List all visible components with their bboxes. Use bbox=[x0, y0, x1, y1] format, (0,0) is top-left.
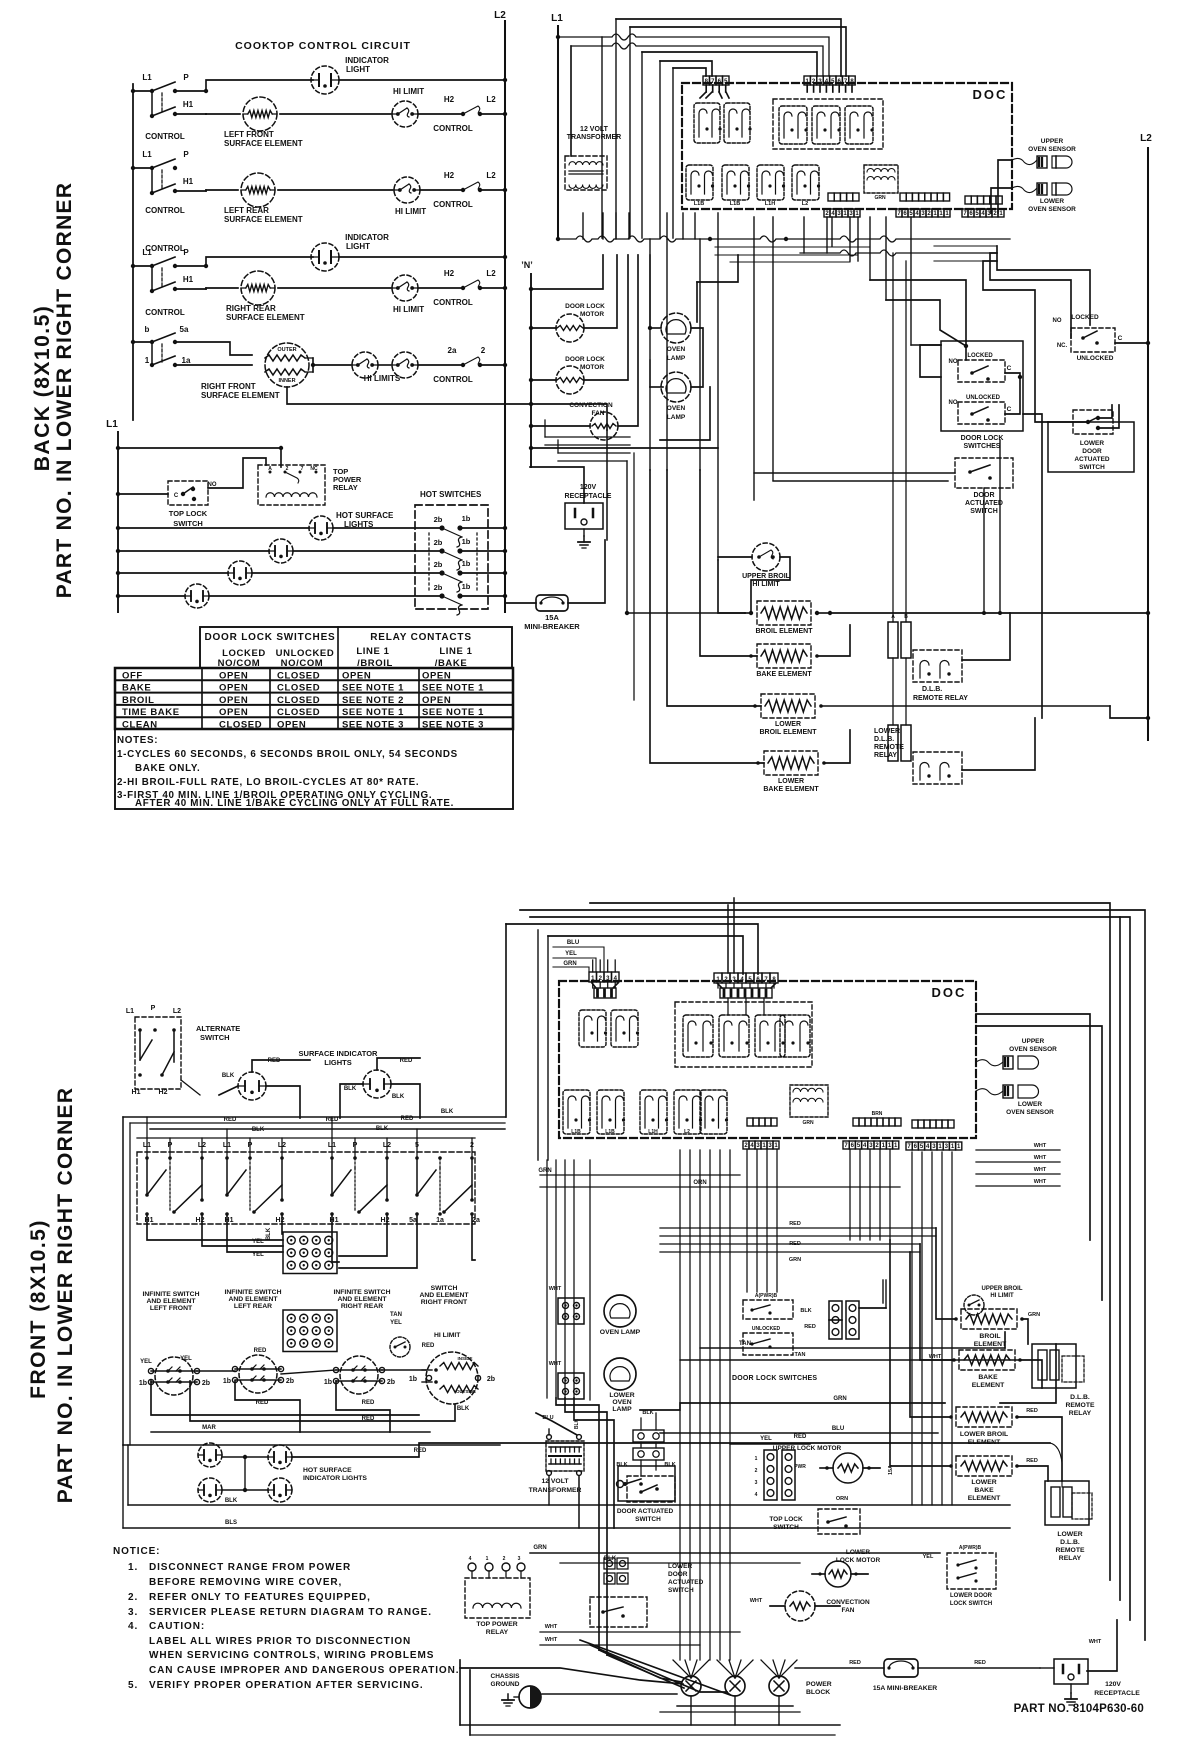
svg-text:HOT SWITCHES: HOT SWITCHES bbox=[420, 490, 482, 499]
wire indicator row1 to L2 bbox=[339, 79, 505, 81]
svg-text:RED: RED bbox=[1026, 1458, 1038, 1464]
svg-text:RED: RED bbox=[794, 1434, 807, 1440]
svg-text:1b: 1b bbox=[139, 1380, 147, 1387]
svg-text:WHT: WHT bbox=[750, 1598, 763, 1604]
wire transformer feeds bbox=[536, 1413, 577, 1435]
svg-text:CAUTION:: CAUTION: bbox=[149, 1621, 205, 1632]
svg-text:ORN: ORN bbox=[693, 1180, 706, 1186]
relay cluster dashed box DOC bbox=[773, 99, 883, 149]
wire door switch connections bbox=[1005, 373, 1020, 377]
svg-text:1: 1 bbox=[145, 356, 150, 365]
svg-text:ALTERNATE: ALTERNATE bbox=[196, 1024, 240, 1033]
svg-text:BLK: BLK bbox=[344, 1086, 357, 1092]
relay K5 in DOC bbox=[845, 106, 873, 144]
terminal block upper bbox=[283, 1232, 337, 1274]
svg-text:BAKE ONLY.: BAKE ONLY. bbox=[135, 763, 200, 774]
connector 8-pin top bbox=[804, 76, 810, 85]
svg-text:RIGHT REAR: RIGHT REAR bbox=[226, 304, 276, 313]
wire right staircase 3 bbox=[983, 261, 1048, 422]
svg-text:3.: 3. bbox=[128, 1607, 138, 1618]
svg-text:BLK: BLK bbox=[252, 1127, 265, 1133]
svg-text:1a: 1a bbox=[182, 356, 191, 365]
svg-text:COOKTOP CONTROL CIRCUIT: COOKTOP CONTROL CIRCUIT bbox=[235, 40, 411, 52]
svg-text:VERIFY PROPER OPERATION AFTER: VERIFY PROPER OPERATION AFTER SERVICING. bbox=[149, 1680, 424, 1691]
svg-text:OVEN: OVEN bbox=[667, 346, 686, 353]
svg-text:POWER: POWER bbox=[806, 1681, 832, 1688]
svg-text:BLK: BLK bbox=[266, 1227, 272, 1240]
svg-text:P: P bbox=[183, 73, 189, 82]
svg-text:RED: RED bbox=[268, 1058, 281, 1064]
lower bake element back bbox=[764, 751, 818, 775]
svg-text:SWITCH: SWITCH bbox=[668, 1587, 694, 1594]
svg-text:BLU: BLU bbox=[567, 940, 579, 946]
svg-text:WHT: WHT bbox=[1034, 1155, 1047, 1161]
svg-text:REMOTE: REMOTE bbox=[1055, 1547, 1085, 1554]
wire lower broil to right bbox=[821, 705, 1110, 707]
wire main bus back bbox=[558, 236, 1010, 242]
wire verticals DOC to lower bbox=[717, 213, 719, 560]
wire bundle below strip a bbox=[746, 1150, 748, 1292]
svg-text:1b: 1b bbox=[462, 559, 471, 568]
svg-text:15A: 15A bbox=[545, 613, 559, 622]
surface element left rear bbox=[239, 1355, 277, 1393]
svg-text:UPPER: UPPER bbox=[1022, 1038, 1045, 1045]
surface element right rear bbox=[340, 1356, 378, 1394]
svg-text:GRN: GRN bbox=[874, 195, 886, 201]
svg-text:H2: H2 bbox=[159, 1089, 168, 1096]
svg-text:ELEMENT: ELEMENT bbox=[972, 1382, 1005, 1389]
wire L1 to connector nest bbox=[556, 35, 560, 39]
svg-text:NOTES:: NOTES: bbox=[117, 735, 158, 746]
svg-text:SEE NOTE 1: SEE NOTE 1 bbox=[342, 707, 404, 718]
svg-text:RIGHT REAR: RIGHT REAR bbox=[341, 1303, 383, 1310]
transformer small in DOC bbox=[864, 165, 898, 193]
wire bottom rails bbox=[460, 1724, 840, 1726]
svg-text:4: 4 bbox=[469, 1556, 472, 1562]
wire hi limit row1 to control L2 bbox=[418, 113, 463, 115]
svg-text:RED: RED bbox=[414, 1448, 427, 1454]
svg-text:OVEN SENSOR: OVEN SENSOR bbox=[1028, 146, 1076, 153]
svg-text:INNER: INNER bbox=[278, 378, 295, 384]
svg-text:BROIL ELEMENT: BROIL ELEMENT bbox=[755, 628, 813, 635]
wire breaker to oven section bbox=[568, 540, 605, 603]
wire right big bundle bbox=[976, 1014, 1090, 1240]
svg-text:RELAY: RELAY bbox=[1059, 1555, 1082, 1562]
svg-text:L2: L2 bbox=[802, 201, 808, 207]
svg-text:H2: H2 bbox=[444, 269, 455, 278]
broil element back bbox=[757, 601, 811, 625]
svg-text:YEL: YEL bbox=[180, 1356, 192, 1362]
svg-text:L2: L2 bbox=[486, 95, 496, 104]
svg-text:LAMP: LAMP bbox=[667, 355, 686, 362]
svg-text:WHEN SERVICING CONTROLS, WIRIN: WHEN SERVICING CONTROLS, WIRING PROBLEMS bbox=[149, 1650, 434, 1661]
svg-text:RIGHT FRONT: RIGHT FRONT bbox=[421, 1299, 468, 1306]
connector strip DOC bottom mid bbox=[900, 193, 906, 201]
svg-text:RED: RED bbox=[422, 1343, 435, 1349]
svg-text:15A MINI-BREAKER: 15A MINI-BREAKER bbox=[873, 1685, 937, 1692]
15A mini-breaker top bbox=[536, 595, 568, 611]
relay cluster front DOC bbox=[675, 1002, 812, 1067]
DOC box back bbox=[682, 83, 1012, 209]
svg-text:L2: L2 bbox=[1140, 133, 1152, 144]
svg-text:B: B bbox=[904, 614, 908, 620]
wire stubs assembly top bbox=[146, 1138, 148, 1156]
svg-text:HI LIMIT: HI LIMIT bbox=[434, 1332, 461, 1339]
wire L1 mid bus bbox=[117, 432, 119, 612]
svg-text:5a: 5a bbox=[409, 1217, 417, 1224]
svg-text:L2: L2 bbox=[494, 10, 506, 21]
svg-text:DOOR ACTUATED: DOOR ACTUATED bbox=[617, 1508, 674, 1515]
hi limit row1 bbox=[392, 101, 418, 127]
svg-text:OVEN SENSOR: OVEN SENSOR bbox=[1028, 206, 1076, 213]
svg-text:LINE 1: LINE 1 bbox=[356, 646, 389, 657]
connector strip front doc right bbox=[912, 1120, 918, 1128]
svg-text:SWITCH: SWITCH bbox=[773, 1524, 799, 1531]
svg-text:INFINITE SWITCH: INFINITE SWITCH bbox=[224, 1289, 281, 1296]
svg-text:L1B: L1B bbox=[730, 201, 740, 207]
svg-text:H2: H2 bbox=[444, 171, 455, 180]
svg-text:1b: 1b bbox=[409, 1376, 417, 1383]
relay K2 in DOC bbox=[724, 103, 750, 143]
svg-text:BLK: BLK bbox=[664, 1462, 675, 1468]
svg-text:AFTER 40 MIN. LINE 1/BAKE CYCL: AFTER 40 MIN. LINE 1/BAKE CYCLING ONLY A… bbox=[135, 798, 454, 809]
svg-text:A(PWR)B: A(PWR)B bbox=[959, 1545, 982, 1551]
wire center bundle verticals front bbox=[679, 1150, 681, 1660]
svg-text:RELAY CONTACTS: RELAY CONTACTS bbox=[370, 632, 472, 643]
relay row2 front DOC 1 bbox=[563, 1090, 590, 1134]
wire row2 H1 to element bbox=[175, 190, 206, 192]
svg-text:CONTROL: CONTROL bbox=[145, 132, 185, 141]
svg-text:2a: 2a bbox=[472, 1217, 480, 1224]
DOC box front bbox=[559, 981, 976, 1138]
svg-text:A: A bbox=[891, 614, 895, 620]
svg-text:LABEL ALL WIRES PRIOR TO DISCO: LABEL ALL WIRES PRIOR TO DISCONNECTION bbox=[149, 1636, 411, 1647]
svg-text:BLK: BLK bbox=[457, 1406, 470, 1412]
svg-text:1: 1 bbox=[755, 1456, 758, 1462]
wire verticals from DOC down to bus bbox=[582, 213, 584, 239]
connector 4-pin top bbox=[703, 76, 710, 85]
svg-text:H2: H2 bbox=[276, 1217, 285, 1224]
oven sensor lower bbox=[1037, 183, 1047, 195]
lower broil element front bbox=[956, 1407, 1012, 1427]
svg-text:OPEN: OPEN bbox=[422, 670, 451, 681]
svg-text:4.: 4. bbox=[128, 1621, 138, 1632]
svg-text:1: 1 bbox=[486, 1556, 489, 1562]
svg-text:1b: 1b bbox=[462, 537, 471, 546]
svg-text:DOOR LOCK SWITCHES: DOOR LOCK SWITCHES bbox=[732, 1375, 817, 1382]
wire right staircase 1 bbox=[997, 246, 1090, 325]
svg-text:RED: RED bbox=[256, 1400, 269, 1406]
wire N to top bbox=[531, 255, 603, 289]
svg-text:DOC: DOC bbox=[932, 985, 967, 1000]
surface element left front bbox=[155, 1357, 193, 1395]
connector strip front doc mid bbox=[853, 1118, 859, 1126]
svg-text:OVEN SENSOR: OVEN SENSOR bbox=[1006, 1109, 1054, 1116]
svg-text:BLK: BLK bbox=[642, 1410, 653, 1416]
svg-text:SWITCH: SWITCH bbox=[200, 1033, 230, 1042]
broil element front bbox=[961, 1309, 1017, 1329]
svg-text:TOP POWER: TOP POWER bbox=[476, 1621, 517, 1628]
wire nest line 5 bbox=[642, 52, 817, 76]
svg-text:REMOTE RELAY: REMOTE RELAY bbox=[913, 695, 968, 702]
hot surface light 1 bbox=[309, 516, 333, 540]
element row1 bbox=[243, 97, 277, 131]
svg-text:NO: NO bbox=[949, 400, 958, 406]
svg-text:CLOSED: CLOSED bbox=[277, 695, 320, 706]
svg-text:L1B: L1B bbox=[694, 201, 704, 207]
wire bus back third bbox=[934, 246, 997, 261]
upper broil hi limit bbox=[752, 543, 780, 571]
svg-text:RELAY: RELAY bbox=[874, 752, 897, 759]
wire staircase to door switches bbox=[870, 280, 966, 346]
svg-text:2: 2 bbox=[481, 346, 486, 355]
lower bake element front bbox=[956, 1456, 1012, 1476]
svg-text:WHT: WHT bbox=[549, 1286, 562, 1292]
wire elements verticals from bus bbox=[699, 239, 701, 470]
connector funnel 8pin front bbox=[717, 983, 722, 988]
svg-text:SEE NOTE 1: SEE NOTE 1 bbox=[422, 707, 484, 718]
wire rails mid left back bbox=[545, 436, 630, 438]
wire verticals right of N bbox=[544, 420, 546, 437]
wire hot light 3 bbox=[118, 572, 228, 574]
svg-text:L2: L2 bbox=[173, 1008, 181, 1015]
svg-text:LOWER: LOWER bbox=[1018, 1101, 1042, 1108]
svg-text:LAMP: LAMP bbox=[667, 414, 686, 421]
120V receptacle front bbox=[1054, 1659, 1088, 1684]
svg-text:2a: 2a bbox=[448, 346, 457, 355]
svg-text:RED: RED bbox=[400, 1058, 413, 1064]
svg-text:LINE 1: LINE 1 bbox=[439, 646, 472, 657]
door lock switches back box bbox=[941, 341, 1023, 431]
svg-text:LOWER: LOWER bbox=[1040, 198, 1064, 205]
svg-text:WHT: WHT bbox=[545, 1637, 558, 1643]
svg-text:YEL: YEL bbox=[565, 951, 577, 957]
hot switches box bbox=[415, 505, 488, 609]
svg-text:WHT: WHT bbox=[1034, 1167, 1047, 1173]
table notes bbox=[115, 729, 513, 809]
wire hi limits to control row4 bbox=[418, 364, 463, 366]
svg-text:BLK: BLK bbox=[441, 1109, 454, 1115]
svg-text:2b: 2b bbox=[487, 1376, 495, 1383]
hi limit row3 bbox=[392, 275, 418, 301]
svg-text:YEL: YEL bbox=[923, 1554, 934, 1560]
svg-text:SEE NOTE 1: SEE NOTE 1 bbox=[422, 683, 484, 694]
svg-text:b: b bbox=[145, 325, 150, 334]
svg-text:2b: 2b bbox=[434, 583, 443, 592]
svg-text:BLK: BLK bbox=[800, 1308, 811, 1314]
svg-text:RED: RED bbox=[362, 1400, 375, 1406]
svg-text:C: C bbox=[1007, 365, 1012, 372]
wire rails RED GRN front bbox=[660, 1227, 936, 1229]
wire nest line 4 bbox=[571, 43, 823, 76]
svg-text:PART NO. 8104P630-60: PART NO. 8104P630-60 bbox=[1014, 1703, 1144, 1715]
svg-text:CONTROL: CONTROL bbox=[145, 206, 185, 215]
top lock switch front bbox=[818, 1509, 860, 1534]
15A mini-breaker front bbox=[884, 1659, 918, 1677]
svg-text:LEFT REAR: LEFT REAR bbox=[224, 206, 269, 215]
svg-text:HI LIMIT: HI LIMIT bbox=[393, 87, 424, 96]
wire vertical 634 bbox=[633, 453, 635, 700]
svg-text:OPEN: OPEN bbox=[219, 707, 248, 718]
svg-text:HOT SURFACE: HOT SURFACE bbox=[303, 1467, 352, 1474]
svg-text:YEL: YEL bbox=[760, 1436, 772, 1442]
svg-text:SERVICER PLEASE RETURN DIAGRAM: SERVICER PLEASE RETURN DIAGRAM TO RANGE. bbox=[149, 1607, 432, 1618]
relay row lower DOC 3 bbox=[757, 165, 784, 200]
svg-text:L1: L1 bbox=[142, 73, 152, 82]
connector grid upper lock motor bbox=[764, 1450, 777, 1500]
svg-text:CONTROL: CONTROL bbox=[433, 200, 473, 209]
svg-text:3: 3 bbox=[518, 1556, 521, 1562]
svg-text:RED: RED bbox=[804, 1324, 816, 1330]
svg-text:1-CYCLES 60 SECONDS, 6 SECONDS: 1-CYCLES 60 SECONDS, 6 SECONDS BROIL ONL… bbox=[117, 749, 458, 760]
wire strip feeds bbox=[882, 1280, 884, 1303]
svg-text:L1: L1 bbox=[126, 1008, 134, 1015]
wire receptacle feed bbox=[530, 467, 584, 503]
svg-text:CONVECTION: CONVECTION bbox=[569, 402, 613, 409]
table door lock switches header bbox=[200, 627, 512, 668]
relay row2 front DOC 5 bbox=[700, 1090, 727, 1134]
svg-text:DISCONNECT RANGE FROM POWER: DISCONNECT RANGE FROM POWER bbox=[149, 1562, 351, 1573]
wire hot light 4 bbox=[118, 595, 185, 597]
svg-text:GROUND: GROUND bbox=[491, 1681, 520, 1688]
door actuated switch front bbox=[618, 1466, 675, 1501]
element row2 bbox=[241, 173, 275, 207]
svg-text:AND ELEMENT: AND ELEMENT bbox=[146, 1298, 196, 1305]
svg-text:1b: 1b bbox=[324, 1379, 332, 1386]
DLB remote relay front bbox=[1032, 1344, 1076, 1388]
wire elements left feeds bbox=[718, 560, 745, 613]
svg-text:BAKE: BAKE bbox=[122, 683, 151, 694]
svg-text:SURFACE ELEMENT: SURFACE ELEMENT bbox=[201, 391, 280, 400]
infinite switch assembly box bbox=[137, 1152, 475, 1224]
svg-text:SEE NOTE 2: SEE NOTE 2 bbox=[342, 695, 404, 706]
svg-text:INFINITE SWITCH: INFINITE SWITCH bbox=[333, 1289, 390, 1296]
wire bundle below strip c bbox=[911, 1152, 913, 1505]
wire element row2 to hi limit bbox=[278, 189, 394, 191]
wire below power block bbox=[677, 1705, 793, 1707]
wire element row1 to hi limit bbox=[280, 113, 392, 115]
svg-text:BAKE: BAKE bbox=[978, 1374, 998, 1381]
svg-text:2b: 2b bbox=[434, 515, 443, 524]
svg-text:HOT SURFACE: HOT SURFACE bbox=[336, 511, 394, 520]
svg-text:2b: 2b bbox=[286, 1378, 294, 1385]
svg-text:A: A bbox=[268, 466, 272, 472]
svg-text:WHT: WHT bbox=[1034, 1143, 1047, 1149]
lower door actuated switch front bbox=[604, 1558, 615, 1569]
wire left L1 bus cooktop bbox=[132, 84, 134, 420]
wire row1 P to indicator bbox=[175, 80, 313, 91]
svg-text:7: 7 bbox=[301, 466, 304, 472]
svg-text:BACK (8X10.5): BACK (8X10.5) bbox=[31, 305, 54, 472]
svg-text:PART NO. IN LOWER RIGHT CORNER: PART NO. IN LOWER RIGHT CORNER bbox=[54, 1087, 77, 1504]
svg-text:BAKE ELEMENT: BAKE ELEMENT bbox=[763, 786, 819, 793]
svg-text:LOWER: LOWER bbox=[668, 1563, 692, 1570]
wire element row4 to hi limits bbox=[313, 364, 352, 366]
element row4 dual right front bbox=[265, 343, 309, 387]
svg-text:UPPER BROIL: UPPER BROIL bbox=[981, 1286, 1022, 1292]
hot switch 2 bbox=[439, 548, 444, 553]
svg-text:GRN: GRN bbox=[538, 1168, 551, 1174]
svg-text:RELAY: RELAY bbox=[1069, 1410, 1092, 1417]
svg-text:CLOSED: CLOSED bbox=[277, 707, 320, 718]
wire row3 P to indicator bbox=[175, 257, 313, 266]
wire hot switch 1 to L2 bbox=[460, 527, 505, 529]
wire bus back extra rails bbox=[715, 247, 870, 262]
svg-text:TOP LOCK: TOP LOCK bbox=[769, 1516, 803, 1523]
svg-text:TRANSFORMER: TRANSFORMER bbox=[567, 134, 621, 141]
wire L1 bus right bbox=[557, 26, 559, 240]
svg-text:REFER ONLY TO FEATURES EQUIPPE: REFER ONLY TO FEATURES EQUIPPED, bbox=[149, 1592, 371, 1603]
svg-text:1.: 1. bbox=[128, 1562, 138, 1573]
DLB remote relay bbox=[888, 622, 898, 658]
svg-text:12 VOLT: 12 VOLT bbox=[541, 1478, 569, 1485]
svg-text:CAN CAUSE IMPROPER AND DANGERO: CAN CAUSE IMPROPER AND DANGEROUS OPERATI… bbox=[149, 1665, 459, 1676]
svg-text:CONTROL: CONTROL bbox=[145, 244, 185, 253]
svg-text:PART NO. IN LOWER RIGHT CORNER: PART NO. IN LOWER RIGHT CORNER bbox=[53, 182, 76, 599]
wire hi limit row3 to control L2 bbox=[418, 287, 463, 289]
svg-text:ELEMENT: ELEMENT bbox=[968, 1495, 1001, 1502]
svg-text:FAN: FAN bbox=[842, 1607, 855, 1614]
lower door lock switch front bbox=[947, 1553, 996, 1589]
svg-text:OVEN SENSOR: OVEN SENSOR bbox=[1009, 1046, 1057, 1053]
svg-text:DOOR: DOOR bbox=[1082, 448, 1102, 455]
svg-text:GRN: GRN bbox=[833, 1396, 846, 1402]
svg-text:LOCK MOTOR: LOCK MOTOR bbox=[836, 1557, 881, 1564]
svg-text:LOWER: LOWER bbox=[1080, 440, 1104, 447]
wire bus back second bbox=[800, 250, 997, 256]
svg-text:WHT: WHT bbox=[1089, 1639, 1102, 1645]
svg-text:ACTUATED: ACTUATED bbox=[668, 1579, 704, 1586]
svg-text:MOTOR: MOTOR bbox=[580, 364, 604, 371]
svg-text:SURFACE INDICATOR: SURFACE INDICATOR bbox=[299, 1049, 378, 1058]
switch CONTROL row1 bbox=[131, 89, 135, 93]
svg-text:D.L.B.: D.L.B. bbox=[874, 736, 894, 743]
connector strip DOC bottom right bbox=[965, 196, 971, 204]
hot switch 1 bbox=[439, 525, 444, 530]
svg-text:PWR: PWR bbox=[794, 1464, 806, 1470]
switch CONTROL row4 bbox=[131, 340, 135, 344]
svg-text:1b: 1b bbox=[462, 514, 471, 523]
svg-text:INDICATOR: INDICATOR bbox=[345, 233, 389, 242]
svg-text:NOTICE:: NOTICE: bbox=[113, 1546, 160, 1557]
svg-text:L1: L1 bbox=[142, 150, 152, 159]
wire right staircase 2 bbox=[990, 253, 1071, 338]
bake element back bbox=[757, 644, 811, 668]
svg-text:MINI-BREAKER: MINI-BREAKER bbox=[524, 622, 580, 631]
svg-text:GRN: GRN bbox=[789, 1257, 801, 1263]
svg-text:OUTER: OUTER bbox=[277, 347, 296, 353]
svg-text:NC.: NC. bbox=[1057, 343, 1068, 349]
svg-text:ORN: ORN bbox=[836, 1496, 848, 1502]
surface indicator light left bbox=[238, 1072, 266, 1100]
svg-text:OVEN LAMP: OVEN LAMP bbox=[600, 1329, 641, 1336]
connector 8-pin front doc bbox=[714, 973, 722, 983]
svg-text:RED: RED bbox=[849, 1660, 861, 1666]
wire element row lower rail bbox=[151, 1381, 419, 1415]
svg-text:CONTROL: CONTROL bbox=[433, 298, 473, 307]
wire sensors to DOC bbox=[1012, 158, 1037, 192]
svg-text:OPEN: OPEN bbox=[219, 683, 248, 694]
svg-text:BROIL: BROIL bbox=[979, 1333, 1000, 1340]
svg-text:BLK: BLK bbox=[225, 1498, 238, 1504]
svg-text:SWITCH: SWITCH bbox=[635, 1516, 661, 1523]
bake element front bbox=[959, 1350, 1015, 1370]
relay row2 front DOC 4 bbox=[674, 1090, 701, 1134]
svg-text:2b: 2b bbox=[202, 1380, 210, 1387]
svg-text:UPPER LOCK MOTOR: UPPER LOCK MOTOR bbox=[773, 1445, 842, 1452]
svg-text:L2: L2 bbox=[486, 269, 496, 278]
lower door actuated switch back bbox=[1048, 422, 1134, 472]
